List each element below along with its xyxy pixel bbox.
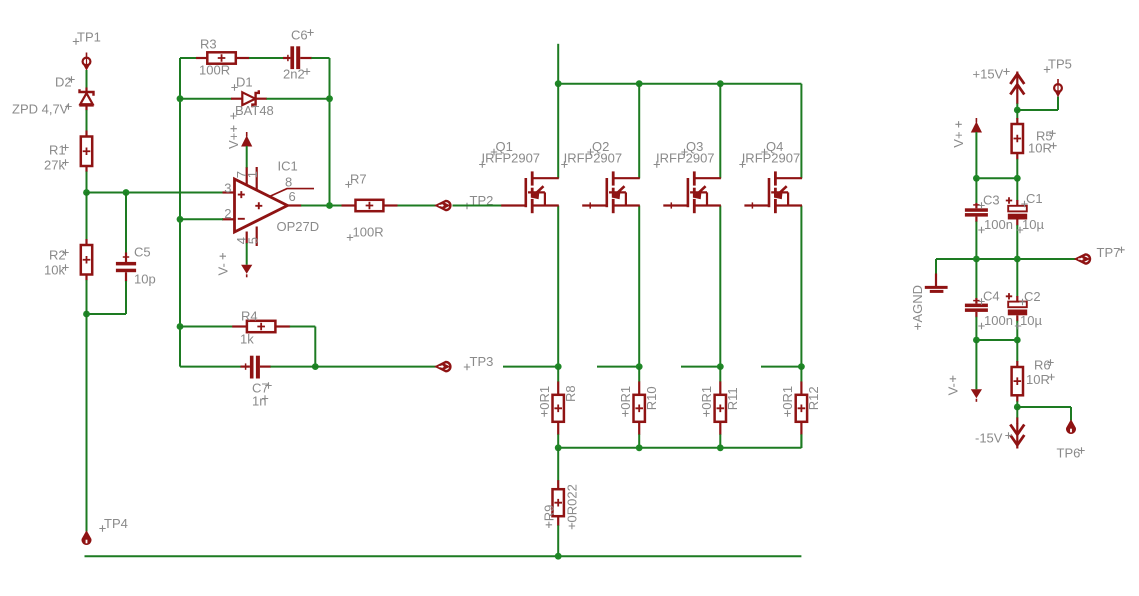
- wire D2 to R1: [86, 110, 88, 131]
- svg-text:R9: R9: [541, 505, 556, 522]
- svg-text:R2: R2: [49, 248, 66, 263]
- transistor Q1 IRFP2907: [479, 84, 559, 367]
- junction -15V node: [1014, 404, 1021, 411]
- resistor R2: [44, 239, 92, 281]
- svg-text:TP5: TP5: [1048, 57, 1072, 72]
- diode D1: [180, 75, 330, 120]
- junction rail Q2: [636, 80, 643, 87]
- power V- right: [945, 340, 982, 402]
- testpoint TP4: [82, 516, 128, 544]
- svg-text:27k: 27k: [44, 158, 65, 173]
- junction source node 2: [636, 363, 643, 370]
- wire source bus: [558, 435, 801, 448]
- resistor R5: [1012, 110, 1057, 178]
- junction TP7 left: [973, 256, 980, 263]
- svg-text:IRFP2907: IRFP2907: [742, 150, 801, 165]
- junction +15V node: [1014, 107, 1021, 114]
- zener diode D2: [12, 75, 94, 117]
- junction R4-TP3: [312, 363, 319, 370]
- junction D1 anode node: [177, 95, 184, 102]
- wire node to TP4: [86, 314, 88, 532]
- svg-text:D1: D1: [236, 75, 253, 90]
- svg-text:IRFP2907: IRFP2907: [564, 150, 623, 165]
- junction inverting input node: [177, 216, 184, 223]
- svg-text:IC1: IC1: [278, 158, 298, 173]
- svg-text:R10: R10: [644, 386, 659, 410]
- junction source node 1: [555, 363, 562, 370]
- svg-text:IRFP2907: IRFP2907: [656, 150, 715, 165]
- svg-text:0R1: 0R1: [780, 386, 795, 410]
- svg-text:5: 5: [246, 237, 261, 244]
- power V+ right: [951, 118, 982, 148]
- testpoint TP3: [437, 354, 494, 371]
- svg-text:R3: R3: [200, 37, 217, 52]
- wire node to R2: [86, 193, 88, 240]
- wire op-amp output: [301, 205, 437, 207]
- capacitor C2 polarized: [1006, 259, 1043, 340]
- svg-text:6: 6: [289, 189, 296, 204]
- capacitor C1 polarized: [1006, 178, 1045, 259]
- wire top stub: [557, 44, 559, 84]
- capacitor C5: [116, 245, 156, 287]
- power +15V: [973, 67, 1025, 96]
- junction V- row right: [1014, 337, 1021, 344]
- power V+ opamp: [226, 126, 252, 168]
- wire R4 corner: [314, 327, 316, 367]
- svg-text:TP1: TP1: [77, 30, 101, 45]
- resistor R3: [180, 37, 284, 78]
- wire TP3 segment 2: [597, 366, 639, 368]
- svg-text:8: 8: [285, 174, 292, 189]
- wire TP1 to D2: [86, 70, 88, 88]
- transistor Q3 IRFP2907: [654, 84, 721, 367]
- svg-text:0R022: 0R022: [564, 484, 579, 522]
- junction V- row left: [973, 337, 980, 344]
- svg-text:TP7: TP7: [1097, 245, 1121, 260]
- wire noninverting input: [87, 192, 223, 194]
- resistor R6: [1012, 340, 1055, 407]
- svg-text:10µ: 10µ: [1022, 217, 1044, 232]
- junction rail Q3: [717, 80, 724, 87]
- junction D1 cathode node: [326, 95, 333, 102]
- op-amp IC1: [222, 158, 319, 246]
- wire +15V to node: [1016, 96, 1018, 111]
- resistor R12 0R1: [780, 367, 821, 448]
- svg-text:V+: V+: [226, 133, 241, 149]
- svg-text:AGND: AGND: [910, 285, 925, 323]
- junction source node 4: [798, 363, 805, 370]
- svg-text:0R1: 0R1: [537, 386, 552, 410]
- wire V+ to node: [975, 132, 977, 178]
- svg-text:10µ: 10µ: [1020, 313, 1042, 328]
- svg-text:C3: C3: [983, 192, 1000, 207]
- svg-text:BAT48: BAT48: [235, 103, 274, 118]
- testpoint TP6: [1017, 407, 1084, 461]
- svg-text:C5: C5: [134, 245, 151, 260]
- wire feedback vertical: [179, 58, 181, 367]
- svg-text:100R: 100R: [199, 63, 230, 78]
- svg-text:V-: V-: [215, 263, 230, 275]
- transistor Q2 IRFP2907: [561, 84, 640, 367]
- junction TP7 right: [1014, 256, 1021, 263]
- svg-text:R6: R6: [1034, 358, 1051, 373]
- junction bus 1: [555, 444, 562, 451]
- svg-text:2n2: 2n2: [283, 67, 305, 82]
- junction R4 node: [177, 323, 184, 330]
- resistor R1: [44, 131, 92, 173]
- svg-text:R12: R12: [806, 386, 821, 410]
- svg-text:ZPD 4,7V: ZPD 4,7V: [12, 102, 69, 117]
- svg-text:V+: V+: [951, 131, 966, 147]
- ground AGND: [910, 259, 947, 330]
- svg-text:TP4: TP4: [104, 516, 128, 531]
- capacitor C3: [965, 178, 1013, 259]
- wire R2 to node: [86, 280, 88, 314]
- wire C6 output vertical: [329, 58, 331, 206]
- testpoint TP1: [73, 30, 101, 70]
- junction V+ row right: [1014, 175, 1021, 182]
- wire v+ rail: [976, 177, 1017, 179]
- svg-text:C2: C2: [1024, 289, 1041, 304]
- resistor R4: [180, 308, 315, 346]
- resistor R11 0R1: [699, 367, 740, 448]
- svg-text:3: 3: [224, 181, 231, 196]
- svg-text:0R1: 0R1: [699, 386, 714, 410]
- svg-text:+15V: +15V: [973, 67, 1004, 82]
- wire top rail: [558, 83, 801, 85]
- capacitor C6: [283, 28, 330, 82]
- svg-text:C4: C4: [983, 288, 1000, 303]
- junction ground rail: [555, 553, 562, 560]
- junction output node: [326, 202, 333, 209]
- svg-text:2: 2: [224, 206, 231, 221]
- svg-text:1k: 1k: [240, 332, 254, 347]
- wire TP7 row: [936, 258, 1076, 260]
- svg-text:C1: C1: [1026, 191, 1043, 206]
- svg-text:OP27D: OP27D: [277, 219, 320, 234]
- svg-text:R11: R11: [725, 387, 740, 410]
- junction V+ row left: [973, 175, 980, 182]
- resistor R10 0R1: [618, 367, 659, 448]
- svg-text:10k: 10k: [44, 263, 65, 278]
- testpoint TP7: [1076, 245, 1124, 264]
- svg-text:R8: R8: [563, 385, 578, 402]
- testpoint TP5: [1017, 57, 1072, 111]
- svg-text:TP3: TP3: [470, 354, 494, 369]
- resistor R9 0R022: [541, 448, 579, 556]
- wire TP2 to gate: [453, 205, 502, 207]
- junction node IN+: [83, 189, 90, 196]
- svg-text:1: 1: [245, 171, 260, 178]
- resistor R7: [342, 171, 398, 240]
- junction bus 3: [717, 444, 724, 451]
- capacitor C7: [180, 356, 437, 409]
- wire TP3 segment 1: [503, 366, 558, 368]
- resistor R8 0R1: [537, 367, 578, 448]
- wire R1 to node: [86, 172, 88, 193]
- wire TP3 segment 3: [681, 366, 720, 368]
- svg-text:TP6: TP6: [1057, 446, 1081, 461]
- svg-text:R1: R1: [49, 143, 66, 158]
- junction bus 2: [636, 444, 643, 451]
- svg-text:D2: D2: [55, 75, 72, 90]
- svg-text:0R1: 0R1: [618, 386, 633, 410]
- svg-text:V-: V-: [945, 383, 960, 395]
- svg-text:-15V: -15V: [975, 431, 1003, 446]
- junction rail Q1: [555, 80, 562, 87]
- wire C5 bottom: [87, 272, 127, 314]
- svg-text:IRFP2907: IRFP2907: [482, 150, 541, 165]
- ground rail wire: [85, 555, 802, 557]
- svg-text:10R: 10R: [1028, 141, 1052, 156]
- power -15V: [975, 407, 1024, 449]
- svg-text:10p: 10p: [134, 272, 156, 287]
- transistor Q4 IRFP2907: [739, 84, 802, 367]
- svg-text:1n: 1n: [252, 394, 266, 409]
- svg-text:C6: C6: [291, 28, 308, 43]
- wire inverting input: [180, 218, 223, 220]
- power V- opamp: [215, 243, 252, 277]
- svg-text:10R: 10R: [1026, 372, 1050, 387]
- wire C5 top: [123, 193, 129, 263]
- svg-text:R7: R7: [350, 171, 367, 186]
- wire v- rail: [976, 339, 1017, 341]
- capacitor C4: [965, 259, 1013, 340]
- junction source node 3: [717, 363, 724, 370]
- svg-text:R4: R4: [241, 308, 258, 323]
- svg-text:100R: 100R: [353, 224, 384, 239]
- junction bottom-left node: [83, 311, 90, 318]
- testpoint TP2: [437, 193, 494, 210]
- wire TP3 segment 4: [761, 366, 801, 368]
- junction C5 top tap: [123, 189, 130, 196]
